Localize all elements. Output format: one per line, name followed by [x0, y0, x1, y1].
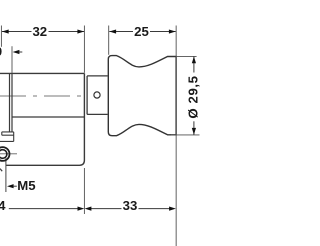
dimension 25 arrow right	[169, 29, 176, 33]
dimension 32 line	[2, 31, 84, 33]
extension line x=12 for 9 dim	[11, 46, 13, 73]
dimension 33 arrow left	[85, 207, 92, 211]
neck left edge	[86, 76, 88, 115]
svg-text:32: 32	[32, 24, 47, 39]
svg-text:33: 33	[123, 198, 138, 213]
centerline main axis	[0, 95, 87, 97]
dimension dia 29,5 line top	[193, 57, 195, 73]
extension line x=176.15 full	[175, 26, 177, 246]
body right edge and bottom edge	[6, 73, 85, 165]
cam tick bottom left	[0, 169, 2, 172]
extension line x=84.4 bottom	[83, 168, 85, 214]
dimension 33 line	[91, 208, 170, 210]
knob outline	[108, 56, 176, 136]
extension line dia bottom	[171, 134, 200, 136]
dimension 9 tail	[19, 51, 23, 53]
set screw hole	[94, 92, 100, 98]
svg-text:M5: M5	[17, 178, 35, 193]
dimension dia 29,5 line bottom	[193, 121, 195, 134]
dimension dia arrow down	[192, 128, 196, 135]
extension line left x=1.4	[0, 26, 2, 47]
centerline screw ring	[0, 153, 17, 155]
dimension 32 arrow right	[77, 29, 84, 33]
extension line dia top	[176, 55, 196, 57]
neck top edge	[87, 75, 108, 77]
extension line x=84.4 top	[83, 26, 85, 73]
svg-text:Ø 29,5: Ø 29,5	[186, 75, 201, 118]
dimension 33 arrow right	[169, 207, 176, 211]
extension line x=108.7	[108, 26, 110, 55]
dimension 9 arrow	[13, 50, 20, 54]
dimension 25 arrow left	[109, 29, 116, 33]
body mid line	[12, 116, 84, 118]
dimension dia arrow up	[192, 57, 196, 64]
cap inner line	[11, 73, 13, 131]
screw boss vertical line	[5, 158, 7, 192]
label M5 arrow	[7, 184, 14, 188]
body top edge	[0, 72, 84, 74]
svg-text:25: 25	[134, 24, 149, 39]
cap step	[0, 132, 14, 142]
screw ring outer	[0, 147, 10, 161]
screw ring inner	[0, 150, 7, 159]
svg-text:9: 9	[0, 44, 2, 59]
label M5 tail	[14, 185, 17, 187]
dimension bottom-left line	[9, 208, 78, 210]
neck bottom edge	[87, 113, 108, 115]
svg-text:4: 4	[0, 198, 6, 213]
cap outer line	[9, 73, 11, 131]
dimension bottom-left arrow right	[78, 207, 85, 211]
dimension 32 arrow left	[2, 29, 9, 33]
dimension 25 line	[109, 31, 175, 33]
